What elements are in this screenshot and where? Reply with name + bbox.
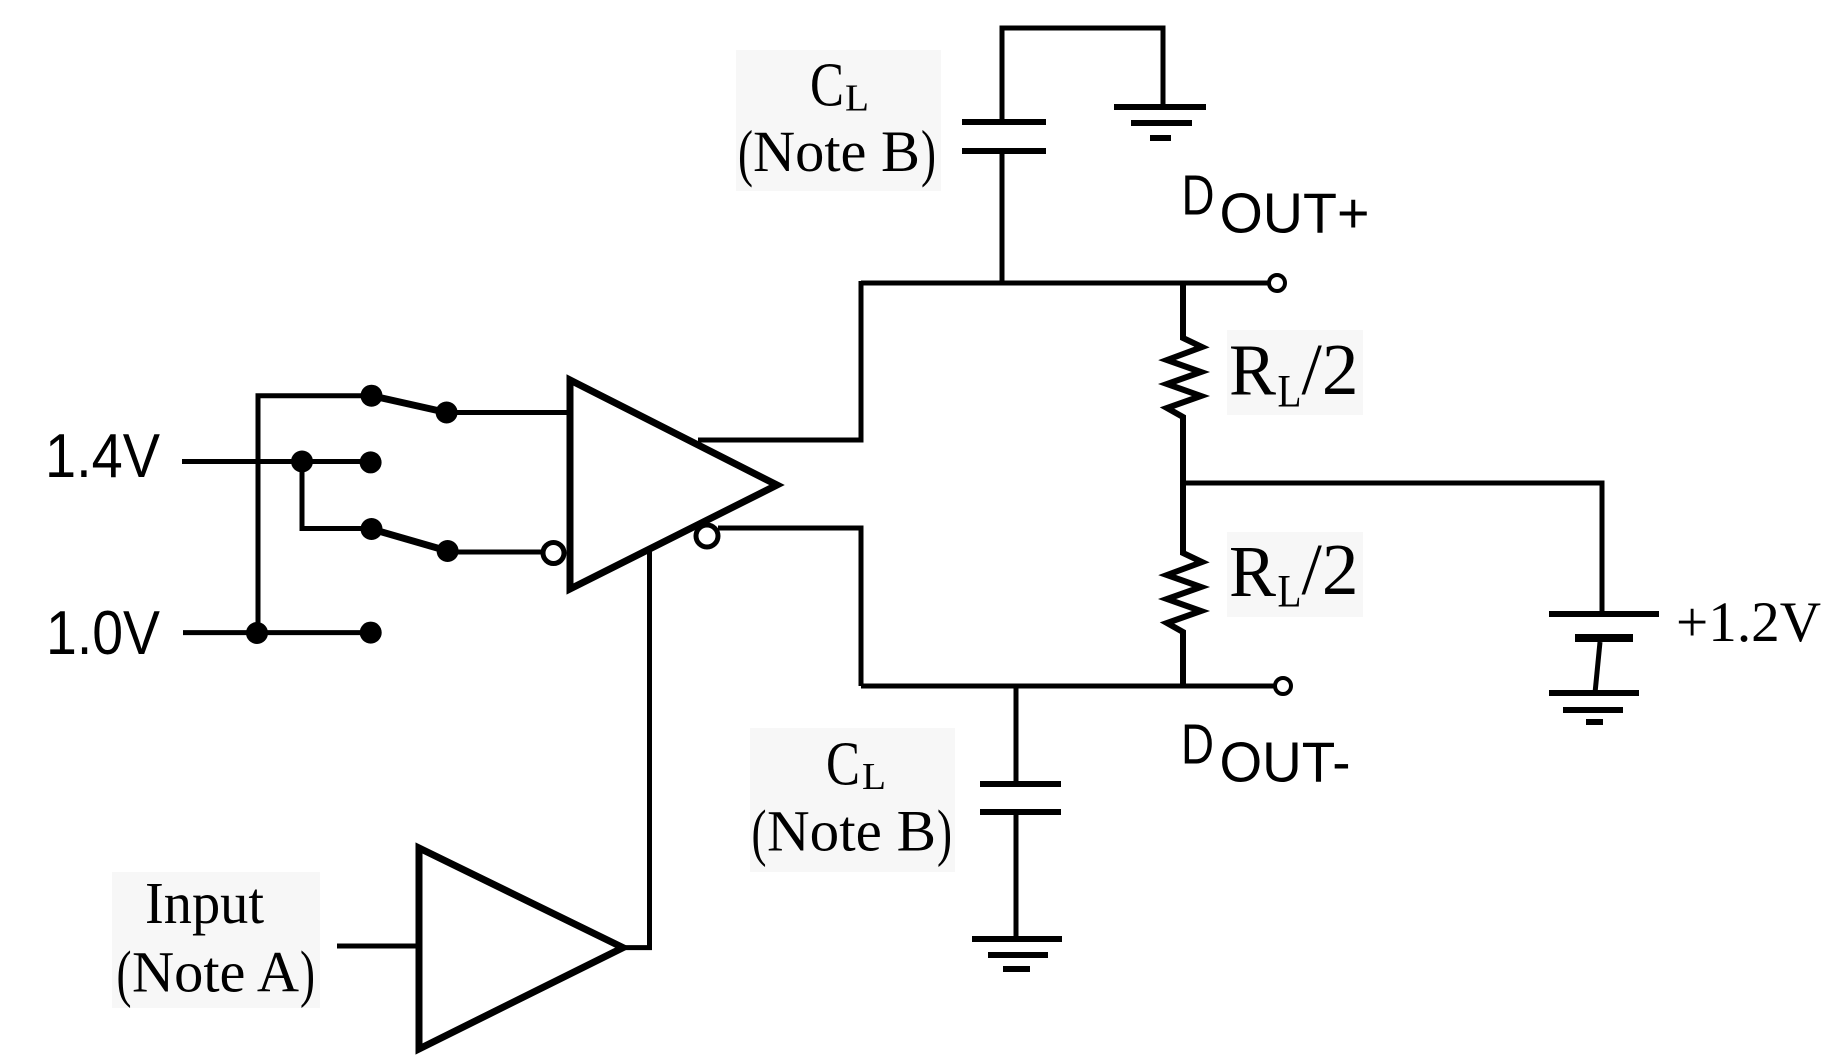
node dot 1.4V junction: [291, 451, 313, 473]
terminal DOUT+ open circle: [1269, 275, 1285, 291]
buffer U2 (input): [419, 848, 623, 1049]
label background RL/2 upper: [1227, 330, 1363, 415]
svg-text:(Note A): (Note A): [117, 938, 316, 1009]
resistor RL/2 lower: [1167, 483, 1202, 686]
svg-text:(Note B): (Note B): [752, 797, 953, 868]
node dot S2 throw: [361, 518, 383, 540]
wire top rail DOUT+: [861, 281, 1268, 286]
node dot 1.0V stub end: [360, 622, 382, 644]
svg-text:Input: Input: [145, 870, 265, 936]
svg-text:(Note B): (Note B): [738, 117, 936, 188]
capacitor CL (top): [962, 122, 1046, 151]
ground (top right, for CL top): [1114, 107, 1206, 138]
wire 1.0V feed: [183, 630, 370, 635]
svg-text:1.0V: 1.0V: [46, 599, 161, 668]
wire CL top to DOUT+ rail: [1000, 151, 1005, 283]
label background Input / Note A: [112, 872, 320, 1008]
op-amp U1 (main driver): [570, 380, 777, 589]
wire 1.4V junction down to S2 throw: [302, 462, 371, 529]
svg-text:1.4V: 1.4V: [45, 422, 161, 491]
label background RL/2 lower: [1227, 532, 1363, 617]
ground (below battery): [1549, 693, 1639, 722]
label background CL (Note B) top: [736, 50, 941, 191]
capacitor CL (bottom): [980, 784, 1061, 812]
node dot S2 pole: [437, 540, 459, 562]
label background CL (Note B) bottom: [750, 728, 955, 872]
battery +1.2V: [1549, 614, 1659, 693]
terminal DOUT- open circle: [1275, 678, 1291, 694]
resistor RL/2 upper: [1167, 283, 1202, 483]
switch S1 blade: [372, 396, 447, 413]
wire from top capacitor up and over to ground: [1002, 28, 1163, 124]
ground (below CL bottom): [972, 939, 1062, 969]
node dot 1.0V junction: [246, 622, 268, 644]
wire U1 bottom output to DOUT- rail: [718, 528, 861, 686]
bubble on U1 inverted output: [696, 525, 718, 547]
node: mid junction wire to battery: [1183, 483, 1602, 613]
wire CL bottom to ground: [1014, 812, 1019, 939]
wire 1.4V feed: [182, 459, 370, 464]
wire bottom rail to CL bottom: [1014, 686, 1019, 784]
bubble on U1 inverting input: [543, 543, 564, 564]
node dot S1 throw (top): [361, 385, 383, 407]
wire input to U2: [337, 944, 419, 949]
node dot 1.4V stub end: [360, 451, 382, 473]
wire U2 output up to U1 strobe input: [623, 550, 650, 948]
node dot S1 pole: [436, 402, 458, 424]
wire top-left branch (S1 throw to 1.0V vertical): [258, 396, 371, 633]
wire U1 top output to DOUT+ rail: [698, 281, 861, 440]
wire bottom rail DOUT-: [861, 684, 1274, 689]
svg-text:+1.2V: +1.2V: [1676, 591, 1821, 654]
wire switch S2 to inverting bubble: [448, 550, 543, 555]
switch S2 blade: [372, 529, 448, 551]
wire switch S1 to non-inverting input: [447, 410, 570, 415]
